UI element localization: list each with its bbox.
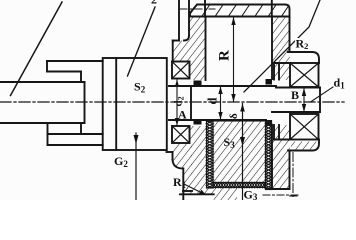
hub S2 box [103, 58, 167, 150]
drum interior hatch [213, 121, 266, 183]
leader line to part 2 [128, 7, 156, 76]
middle shaft [169, 85, 276, 87]
left boss outline [178, 0, 180, 41]
svg-text:A: A [178, 108, 187, 122]
d dimension [220, 87, 222, 120]
centerline shaft axis [0, 101, 344, 103]
step collar top [47, 60, 103, 62]
svg-text:d2: d2 [173, 96, 186, 106]
right column hatch top [272, 17, 290, 81]
svg-text:d: d [206, 98, 220, 105]
svg-text:G2: G2 [114, 154, 128, 169]
hatch right of bottom bearing [190, 126, 207, 188]
rim band centerline [179, 8, 215, 10]
bearing B bottom box [290, 114, 319, 140]
G2 force arrow line [135, 133, 137, 200]
G3 force arrow line [242, 104, 244, 201]
shaft 1 left section top edge [0, 81, 85, 83]
drum crosshatch border right [266, 121, 272, 190]
seals right [266, 79, 273, 85]
bolt centerline bottom right [263, 194, 298, 196]
R2 leader [244, 0, 320, 92]
hatch right of bearing A top [190, 62, 206, 81]
bearing B top box [290, 63, 319, 87]
drum crosshatch border bottom [213, 183, 266, 188]
d2 dimension line [176, 80, 178, 125]
bearing B boss top outline [288, 52, 319, 63]
housing below bearing A [167, 151, 173, 153]
svg-text:B: B [291, 88, 299, 102]
bearing B boss bottom outline [288, 140, 319, 151]
d1 dimension arrows [303, 88, 305, 112]
right column hatch bottom [272, 125, 290, 189]
left web column hatch [173, 17, 206, 62]
svg-text:δ: δ [228, 113, 240, 119]
svg-text:R: R [217, 50, 233, 61]
left diagonal leader [11, 2, 63, 96]
shaft shoulder at hub [84, 82, 86, 123]
R1 leader [184, 184, 203, 194]
bottom flange hatch [184, 188, 214, 195]
rim band top [190, 5, 290, 17]
bearing A top box [172, 62, 190, 79]
label R2 background patch [295, 38, 308, 48]
shaft right end [276, 87, 320, 89]
wheel web edge lines through rim [204, 0, 206, 17]
svg-text:2: 2 [151, 0, 157, 7]
svg-text:S2: S2 [134, 80, 146, 95]
drum crosshatch border left [207, 121, 272, 190]
svg-text:d1: d1 [334, 76, 346, 91]
seals left [194, 81, 202, 86]
step collar bottom [48, 133, 103, 135]
shaft 1 left section bottom edge [0, 122, 85, 124]
bearing A bottom box [172, 126, 190, 143]
d1 leader [311, 87, 334, 102]
R dimension [233, 17, 235, 102]
svg-text:G3: G3 [244, 188, 258, 201]
